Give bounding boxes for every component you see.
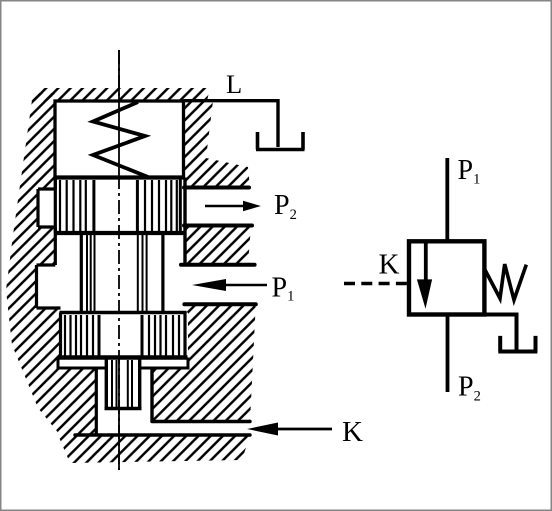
svg-text:K: K	[342, 416, 363, 448]
schematic P2 pipe	[446, 315, 450, 393]
L port line	[184, 101, 279, 147]
hatch strip above spring chamber	[30, 88, 210, 101]
schematic drain line	[484, 315, 516, 351]
drain channel right wall	[150, 368, 153, 422]
hatch wall between P2 and P1 ports	[184, 226, 251, 265]
svg-text:P2: P2	[274, 190, 297, 223]
spring chamber box	[55, 101, 184, 178]
bottom land right edge	[183, 313, 186, 358]
hatch region below P1 port right of spool	[152, 304, 256, 421]
left bore wall with notch	[37, 178, 61, 309]
bottom land bottom edge	[58, 355, 188, 359]
svg-text:P1: P1	[458, 155, 481, 187]
schematic tank symbol	[498, 336, 537, 352]
flange bottom line	[58, 358, 188, 369]
spool middle stem left edge	[80, 233, 83, 313]
lower stem stripes	[112, 360, 132, 407]
arrow K	[247, 423, 332, 436]
hatch region right of spring chamber and above P2 port	[184, 101, 251, 188]
K passage top line	[152, 420, 250, 423]
top land stripes	[60, 180, 177, 231]
lower stem right edge	[138, 358, 141, 410]
bore right wall	[183, 178, 186, 265]
top land right edge	[179, 178, 182, 234]
drain channel left wall	[95, 369, 98, 435]
P1 port top line	[181, 263, 255, 267]
P1 port bottom line	[184, 302, 255, 306]
svg-text:P2: P2	[458, 371, 481, 404]
centerline lower segment	[118, 358, 120, 470]
arrow P2	[205, 201, 261, 211]
bottom land left edge	[59, 313, 62, 358]
svg-text:K: K	[379, 249, 400, 281]
bottom land stripes	[65, 315, 179, 356]
arrow P1	[192, 279, 267, 291]
svg-text:P1: P1	[272, 272, 295, 304]
schematic P1 pipe	[445, 158, 449, 241]
lower stem left edge	[105, 358, 108, 410]
lower stem bottom edge	[105, 407, 142, 410]
K passage bottom line	[75, 433, 250, 436]
bottom land top edge	[60, 311, 187, 315]
centerline upper segment over spring	[118, 50, 120, 177]
top land top edge	[54, 175, 184, 179]
schematic flow arrow	[417, 243, 432, 309]
middle stem stripes	[87, 235, 147, 311]
P2 port top line	[184, 186, 249, 190]
spring (cross-section zigzag)	[93, 102, 148, 177]
schematic spring	[484, 264, 526, 300]
schematic pilot dashed line K	[344, 282, 409, 286]
top land left edge	[54, 178, 57, 234]
hatch bottom band below K passage	[58, 435, 250, 463]
svg-text:L: L	[226, 69, 242, 99]
spool middle stem right edge	[161, 233, 164, 313]
centerline	[118, 50, 120, 470]
tank symbol at L drain	[256, 132, 305, 150]
P2 port bottom line	[184, 224, 252, 228]
hatch region left body column	[6, 93, 96, 435]
schematic valve box	[409, 241, 484, 314]
top land bottom edge	[54, 231, 184, 235]
